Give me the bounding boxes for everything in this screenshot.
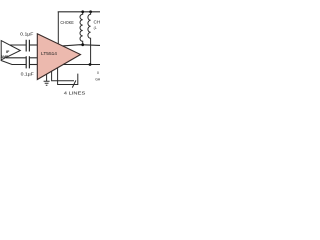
wire upper input <box>10 44 26 46</box>
junction dot B <box>89 10 92 13</box>
junction dot C <box>81 43 84 46</box>
ground stub <box>46 74 48 81</box>
wire cap to amp lower 1 <box>29 57 37 59</box>
bus slash <box>72 80 76 87</box>
svg-text:LT5514: LT5514 <box>41 51 57 57</box>
ground <box>44 81 50 85</box>
wire OUT+ <box>63 45 101 46</box>
op-amp U1 (IF AMP) <box>1 41 20 60</box>
wire lower input 1 <box>6 57 26 59</box>
wire cap to amp upper <box>29 44 37 46</box>
wire gain line A <box>52 71 74 80</box>
capacitor C2 <box>26 56 29 68</box>
wire OUT- <box>63 64 100 66</box>
svg-text:4 LINES: 4 LINES <box>64 91 86 96</box>
svg-text:CHOKE: CHOKE <box>60 20 73 25</box>
wire VCC vertical <box>57 12 59 44</box>
inductor L2 choke <box>88 12 91 65</box>
svg-text:GA: GA <box>95 77 100 81</box>
svg-text:CHO: CHO <box>94 19 101 24</box>
svg-text:0: 0 <box>97 71 99 75</box>
wire VCC top bus <box>58 11 100 13</box>
junction dot A <box>81 10 84 13</box>
wire gain line B <box>58 68 78 85</box>
wire lower input 2 <box>1 60 26 64</box>
wire cap to amp lower 2 <box>29 64 37 66</box>
capacitor C1 <box>26 40 29 52</box>
amplifier U2 LT5514 <box>37 34 80 80</box>
svg-text:0.1µF: 0.1µF <box>21 71 34 76</box>
svg-text:0.1µF: 0.1µF <box>20 32 33 37</box>
svg-text:AMP: AMP <box>1 55 9 59</box>
svg-text:(1.: (1. <box>94 26 98 30</box>
junction dot D <box>89 63 92 66</box>
inductor L1 choke <box>80 12 83 45</box>
